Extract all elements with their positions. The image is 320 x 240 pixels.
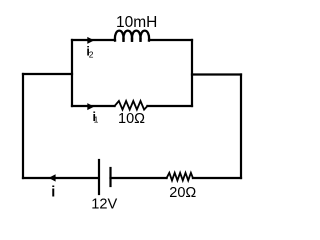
svg-text:20Ω: 20Ω bbox=[169, 185, 196, 201]
wire: middle branch right segment bbox=[147, 105, 192, 107]
inductor loop tick 3 bbox=[139, 37, 141, 41]
wire: top branch right segment bbox=[149, 39, 192, 41]
svg-text:i1: i1 bbox=[93, 110, 99, 125]
arrow: current i2 on top branch (points right) bbox=[87, 37, 94, 44]
wire: outer right vertical bbox=[240, 75, 242, 179]
wire: middle branch left segment bbox=[72, 105, 115, 107]
wire: bottom segment battery to 20 ohm bbox=[111, 177, 167, 179]
arrow: current i1 on middle branch (points right) bbox=[87, 103, 94, 110]
wire: bottom-right segment bbox=[193, 177, 241, 179]
wire: outer left vertical bbox=[22, 74, 24, 178]
wire: inner-left vertical (node A branch split) bbox=[71, 40, 73, 106]
arrow: current i on bottom wire (points left) bbox=[49, 174, 56, 181]
inductor loop tick 2 bbox=[131, 37, 133, 41]
battery B1 short plate (negative) bbox=[109, 168, 111, 186]
svg-text:10mH: 10mH bbox=[116, 14, 157, 31]
svg-text:12V: 12V bbox=[91, 196, 117, 212]
svg-text:10Ω: 10Ω bbox=[118, 111, 145, 127]
resistor R2 20 ohm zigzag bbox=[167, 173, 193, 181]
wire: inner-right vertical bbox=[191, 40, 193, 106]
resistor R1 10 ohm zigzag bbox=[115, 101, 148, 110]
svg-text:i: i bbox=[51, 184, 55, 200]
inductor L1 10mH coil bbox=[115, 31, 149, 41]
inductor loop tick 1 bbox=[122, 37, 124, 41]
wire: right connector (node B to outer right) bbox=[192, 73, 241, 75]
svg-text:i2: i2 bbox=[86, 45, 93, 60]
battery B1 long plate (positive) bbox=[98, 160, 100, 194]
wire: top branch left segment bbox=[72, 39, 115, 41]
wire: top-left horizontal from outer loop to node A bbox=[23, 73, 72, 75]
wire: bottom-left segment (battery to left corner) bbox=[23, 177, 98, 179]
